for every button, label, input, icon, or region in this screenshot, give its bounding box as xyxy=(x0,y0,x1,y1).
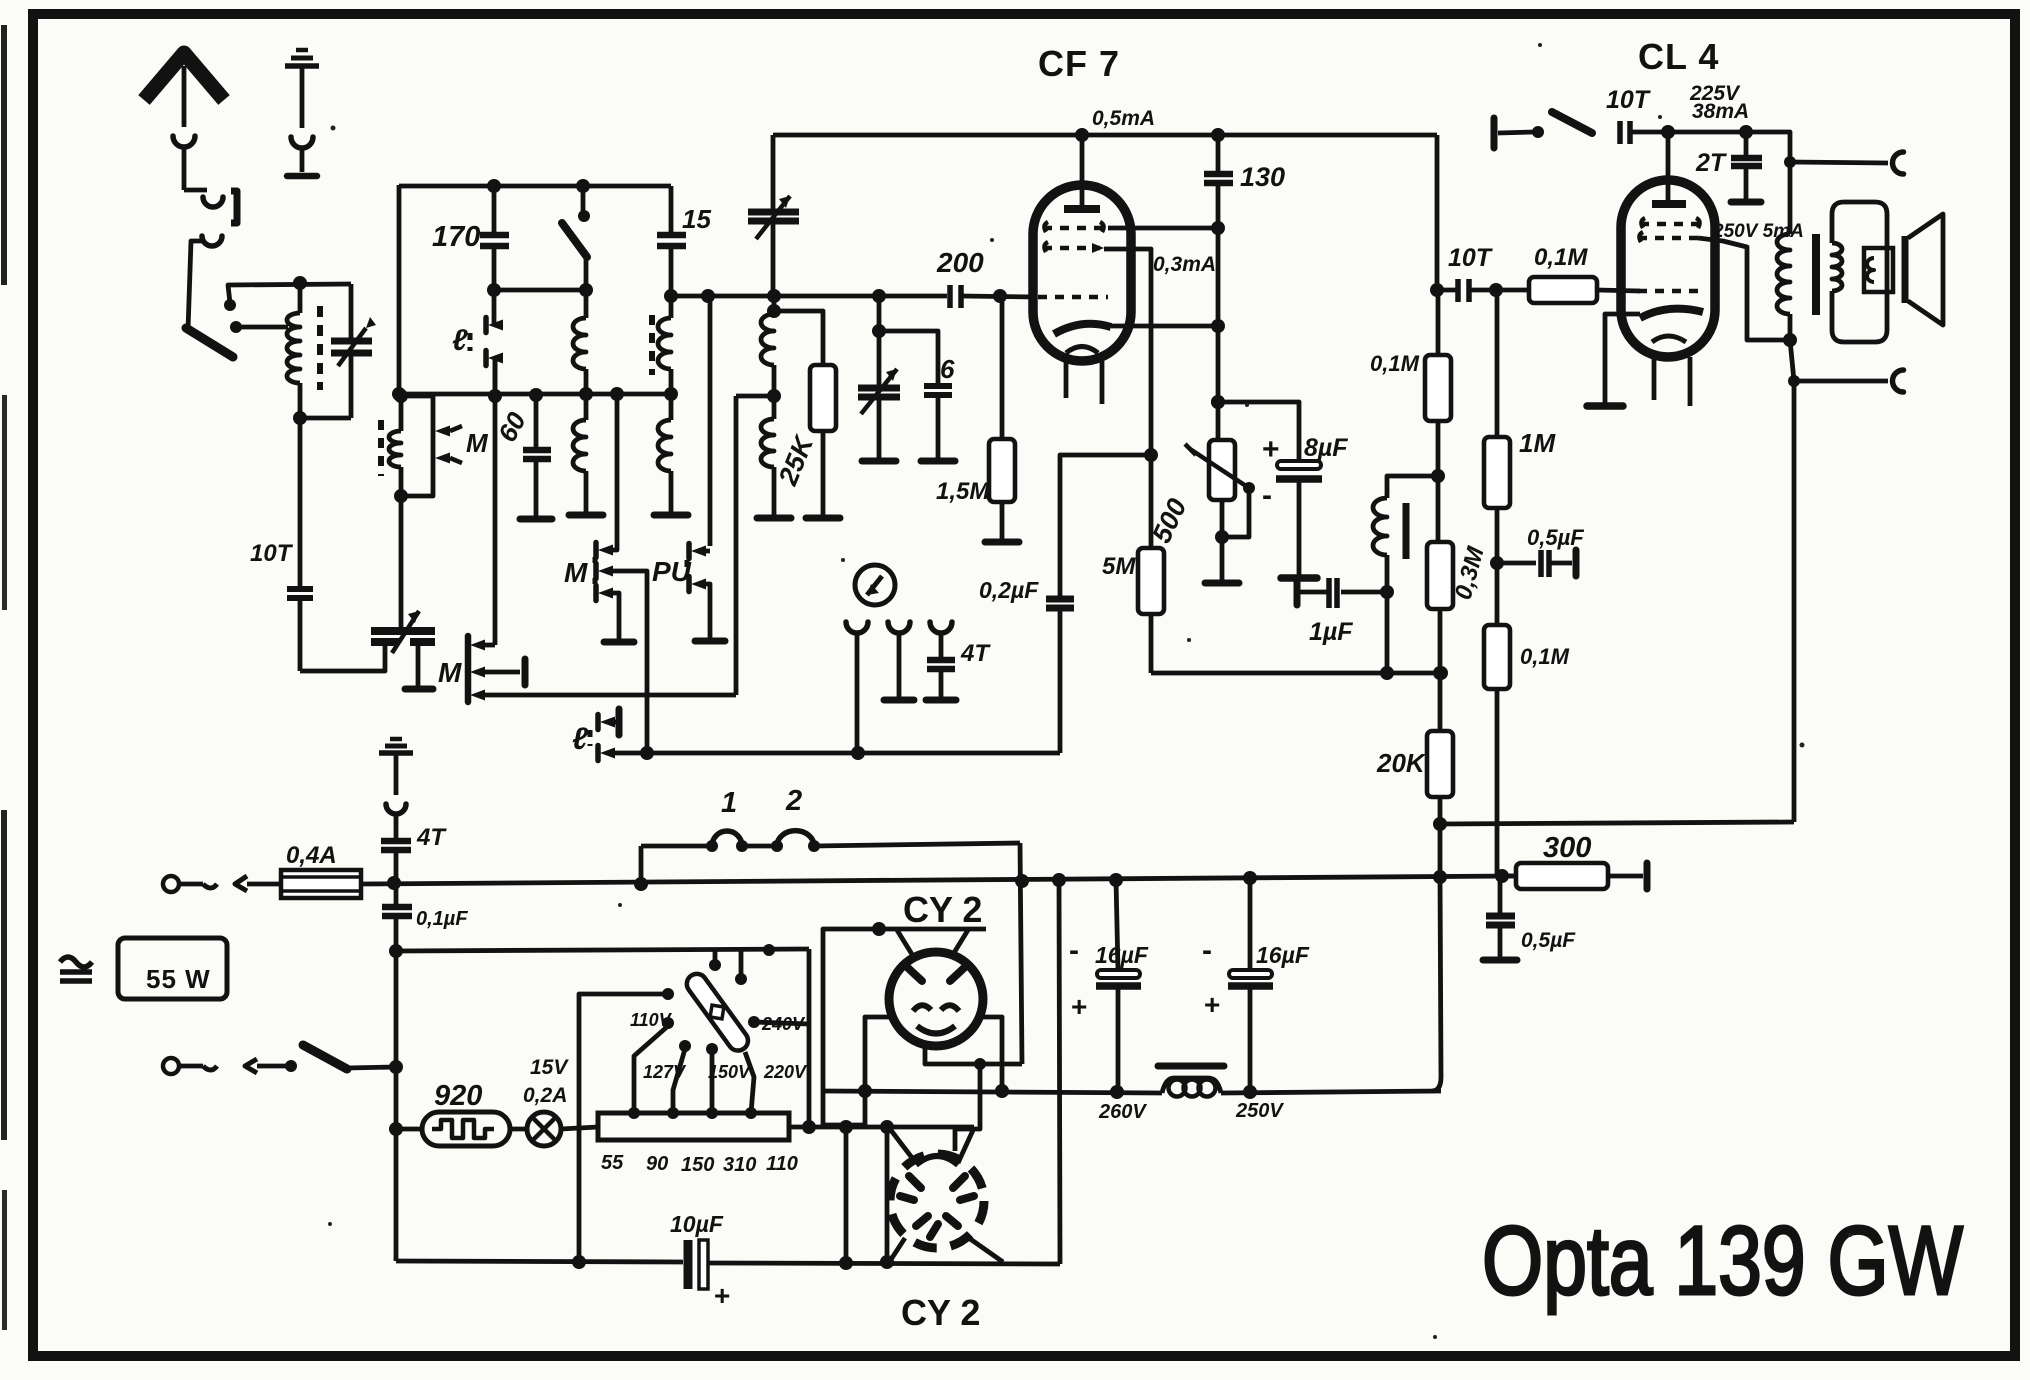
voltage divider column xyxy=(1435,135,1440,290)
antenna tank coil L1 xyxy=(293,276,307,290)
svg-text:5M: 5M xyxy=(1102,553,1136,580)
padding trimmer (osc section) xyxy=(877,296,882,331)
svg-text:0,5µF: 0,5µF xyxy=(1521,929,1576,952)
selector feed rail xyxy=(396,949,809,951)
capacitor 0.1uF xyxy=(394,883,399,905)
mains row xyxy=(361,876,1516,884)
svg-text:0,2µF: 0,2µF xyxy=(979,577,1039,603)
output column down xyxy=(1790,340,1794,381)
svg-text:920: 920 xyxy=(434,1080,482,1112)
svg-text:300: 300 xyxy=(1543,832,1591,864)
speaker terminal top xyxy=(1790,162,1888,163)
svg-text:0,1M: 0,1M xyxy=(1520,644,1570,669)
wire contact2 to coil tap xyxy=(236,325,288,330)
svg-text:1µF: 1µF xyxy=(1309,618,1353,646)
svg-text:0,3mA: 0,3mA xyxy=(1153,253,1216,276)
CL4 cathode xyxy=(1640,309,1703,318)
switch contacts M (coil short) xyxy=(401,396,433,496)
svg-text:20K: 20K xyxy=(1376,748,1427,778)
tube CL4 envelope xyxy=(1621,180,1715,357)
capacitor 15 xyxy=(669,186,674,233)
secondary + voice coil loop xyxy=(1832,243,1842,291)
svg-text:-: - xyxy=(1202,934,1212,967)
svg-text:220V: 220V xyxy=(763,1062,808,1082)
antenna tuning capacitor xyxy=(349,284,354,341)
left band bus xyxy=(397,185,402,396)
svg-text:0,1µF: 0,1µF xyxy=(416,908,468,930)
svg-text:+: + xyxy=(1071,991,1087,1022)
smoothing cap 16uF (output) xyxy=(1248,878,1253,971)
oscillator tap wire xyxy=(736,394,774,399)
capacitor 10T xyxy=(298,418,303,587)
smoothing cap 16uF (input) xyxy=(1116,880,1118,971)
svg-text:15: 15 xyxy=(682,204,711,234)
CY2 inner electrodes xyxy=(908,968,922,981)
antenna selector switch lever xyxy=(186,328,233,357)
antenna symbol xyxy=(144,53,224,100)
svg-text:6: 6 xyxy=(940,354,955,384)
svg-text:150V: 150V xyxy=(708,1062,752,1082)
svg-text:M: M xyxy=(466,428,489,458)
svg-text:2: 2 xyxy=(785,785,802,817)
svg-text:CF 7: CF 7 xyxy=(1038,43,1120,84)
switch contacts L (upper) xyxy=(492,290,497,325)
svg-text:1M: 1M xyxy=(1519,428,1556,458)
capacitor 4T (jack) xyxy=(939,631,944,658)
CF7 grid g2 (dashed) xyxy=(1043,246,1100,251)
padder trimmer capacitor xyxy=(371,627,435,635)
svg-text:110V: 110V xyxy=(630,1010,673,1030)
wire contact1 to tank top xyxy=(228,284,351,303)
svg-text:260V: 260V xyxy=(1098,1101,1147,1123)
capacitor 130 xyxy=(1216,135,1221,172)
cathode bypass 8uF xyxy=(1218,402,1299,460)
scan specks xyxy=(331,126,336,131)
dial lamp 15V 0.2A xyxy=(510,1127,527,1132)
svg-text:15V: 15V xyxy=(530,1056,569,1079)
selector slider xyxy=(683,970,752,1055)
B+ feed down right xyxy=(1059,880,1060,1264)
MW antenna coil xyxy=(394,389,408,403)
svg-text:CL 4: CL 4 xyxy=(1638,36,1719,77)
barretter 920 xyxy=(396,1127,422,1132)
svg-text:ℓ: ℓ xyxy=(452,324,468,357)
wire osc tap down xyxy=(734,396,739,695)
earth terminal xyxy=(285,63,319,69)
grid chain column 1M xyxy=(1495,290,1500,437)
CY2 cathode side wires xyxy=(865,1017,890,1125)
svg-text:0,5µF: 0,5µF xyxy=(1527,525,1584,550)
row y394 xyxy=(399,392,671,397)
110V feed wire xyxy=(579,994,665,1262)
svg-text:55 W: 55 W xyxy=(146,964,211,994)
coil pair at x671 with core xyxy=(649,315,655,375)
oscillator coil xyxy=(772,296,777,311)
CF7 cathode xyxy=(1054,324,1111,334)
svg-text:10T: 10T xyxy=(250,540,294,567)
MW coil core (dashed) xyxy=(378,420,384,476)
IF coil pair at x586 xyxy=(584,290,589,318)
CL4 base pins xyxy=(1652,357,1657,400)
CL4 grid g2 (dashed) xyxy=(1638,236,1698,241)
svg-text:90: 90 xyxy=(646,1153,668,1175)
svg-text:M: M xyxy=(564,557,588,588)
svg-text:10T: 10T xyxy=(1448,244,1494,272)
screen decoupling 0.2uF xyxy=(1060,455,1151,597)
AC symbol xyxy=(60,957,92,967)
svg-text:1: 1 xyxy=(721,787,737,819)
row y290 xyxy=(494,288,586,293)
CY2 heater feed xyxy=(925,1046,1022,1064)
svg-text:200: 200 xyxy=(936,247,984,278)
svg-text:250V: 250V xyxy=(1235,1100,1284,1122)
wire to padder xyxy=(300,644,385,671)
cathode bias pot 500 xyxy=(1216,402,1221,440)
svg-text:CY 2: CY 2 xyxy=(901,1292,980,1333)
CF7 base pins xyxy=(1064,361,1069,398)
svg-text:-: - xyxy=(1262,479,1272,512)
AVC line to 0.3M node xyxy=(1151,671,1441,676)
mains switch lever xyxy=(303,1045,347,1069)
output transformer primary xyxy=(1746,132,1790,162)
oscillator padding cap (variable) top left of CF7 xyxy=(771,135,776,210)
CL4 heater xyxy=(1652,336,1686,342)
CF7 anode xyxy=(1064,205,1100,213)
speaker terminal bottom xyxy=(1788,375,1800,387)
svg-text:16µF: 16µF xyxy=(1095,942,1149,968)
svg-text:ℓ: ℓ xyxy=(572,721,589,756)
tube CF7 envelope xyxy=(1033,185,1131,361)
wire to padder top xyxy=(399,496,404,629)
svg-text:310: 310 xyxy=(723,1154,756,1176)
g3 to screen column xyxy=(1108,226,1218,231)
bottom return row xyxy=(396,1261,683,1262)
svg-text:Opta 139 GW: Opta 139 GW xyxy=(1482,1206,1963,1315)
svg-text:0,5mA: 0,5mA xyxy=(1092,107,1155,130)
transformer core xyxy=(1812,234,1820,315)
CL4 anode xyxy=(1652,200,1686,208)
mains terminal 1 xyxy=(163,876,179,892)
mains terminal 2 xyxy=(163,1058,179,1074)
CF7 heater xyxy=(1066,347,1098,354)
svg-text:130: 130 xyxy=(1240,162,1285,192)
selector taps xyxy=(634,1026,668,1113)
cathode wire xyxy=(1111,324,1218,329)
svg-text:2T: 2T xyxy=(1695,149,1728,177)
svg-text:8µF: 8µF xyxy=(1304,434,1348,462)
antenna plug coupling xyxy=(182,147,187,190)
main grid bus xyxy=(664,289,678,303)
svg-text:127V: 127V xyxy=(643,1062,687,1082)
wire L-switch to lower M xyxy=(493,358,498,645)
svg-text:0,4A: 0,4A xyxy=(286,842,337,869)
CL4 grid g3 (dashed) xyxy=(1640,222,1700,227)
svg-text:+: + xyxy=(714,1280,730,1311)
B+ to divider xyxy=(1432,877,1441,1091)
svg-text:4T: 4T xyxy=(960,640,991,667)
svg-text:10T: 10T xyxy=(1606,86,1652,114)
tank bottom wire xyxy=(300,416,351,421)
voltage selector strip xyxy=(598,1113,789,1140)
CY2 anode feed from left xyxy=(823,929,879,1125)
svg-text:150: 150 xyxy=(681,1154,714,1176)
detector coil with core xyxy=(1387,476,1438,498)
grid resistor 1.5M xyxy=(1000,296,1005,439)
wire links to CY2 xyxy=(1020,843,1022,1064)
top row of RF block xyxy=(399,184,671,189)
CY2 lower leads xyxy=(890,1129,916,1163)
CF7 grid g1 (dashed) xyxy=(1038,295,1108,300)
CL4 grid g1 (dashed) xyxy=(1638,289,1700,294)
svg-text:M: M xyxy=(438,657,462,688)
resistor 25K xyxy=(774,311,823,365)
capacitor 6 xyxy=(879,331,938,384)
svg-text:16µF: 16µF xyxy=(1256,942,1310,968)
heater strip row xyxy=(789,1125,974,1130)
svg-text:4T: 4T xyxy=(416,824,447,851)
svg-text:0,2A: 0,2A xyxy=(523,1084,567,1107)
CF7 grid g3 (dashed) xyxy=(1043,226,1108,231)
CY2 anode hat xyxy=(872,922,886,936)
svg-text:-: - xyxy=(1069,934,1079,967)
top HT bus 0.5mA xyxy=(773,133,1437,138)
feedback row to output xyxy=(1440,822,1794,824)
grid stopper wire xyxy=(1496,288,1529,293)
svg-text:55: 55 xyxy=(601,1152,624,1174)
CL4 cathode ground xyxy=(1605,314,1640,403)
earth ground (mains side) xyxy=(379,750,413,756)
svg-text:0,1M: 0,1M xyxy=(1370,351,1420,376)
AF return row xyxy=(614,751,1060,756)
svg-text:CY 2: CY 2 xyxy=(903,889,982,930)
svg-text:+: + xyxy=(1204,989,1220,1020)
band switch lever (top) xyxy=(581,186,586,211)
svg-text:1,5M: 1,5M xyxy=(936,478,990,505)
svg-text:110: 110 xyxy=(766,1153,798,1175)
jack hooks xyxy=(846,622,868,633)
switch contacts PU (pickup) xyxy=(708,296,713,546)
pickup jack symbol xyxy=(855,565,895,605)
svg-text:170: 170 xyxy=(432,221,480,253)
svg-text:0,1M: 0,1M xyxy=(1534,244,1588,271)
svg-text:10µF: 10µF xyxy=(670,1211,724,1237)
capacitor 4T (mains) xyxy=(394,814,399,839)
svg-text:38mA: 38mA xyxy=(1692,100,1749,123)
55W rating box xyxy=(118,938,227,999)
L1 iron core (dashed) xyxy=(317,306,323,390)
capacitor 1uF xyxy=(1341,590,1387,595)
tone switch xyxy=(1491,118,1498,148)
loudspeaker xyxy=(1902,236,1909,303)
